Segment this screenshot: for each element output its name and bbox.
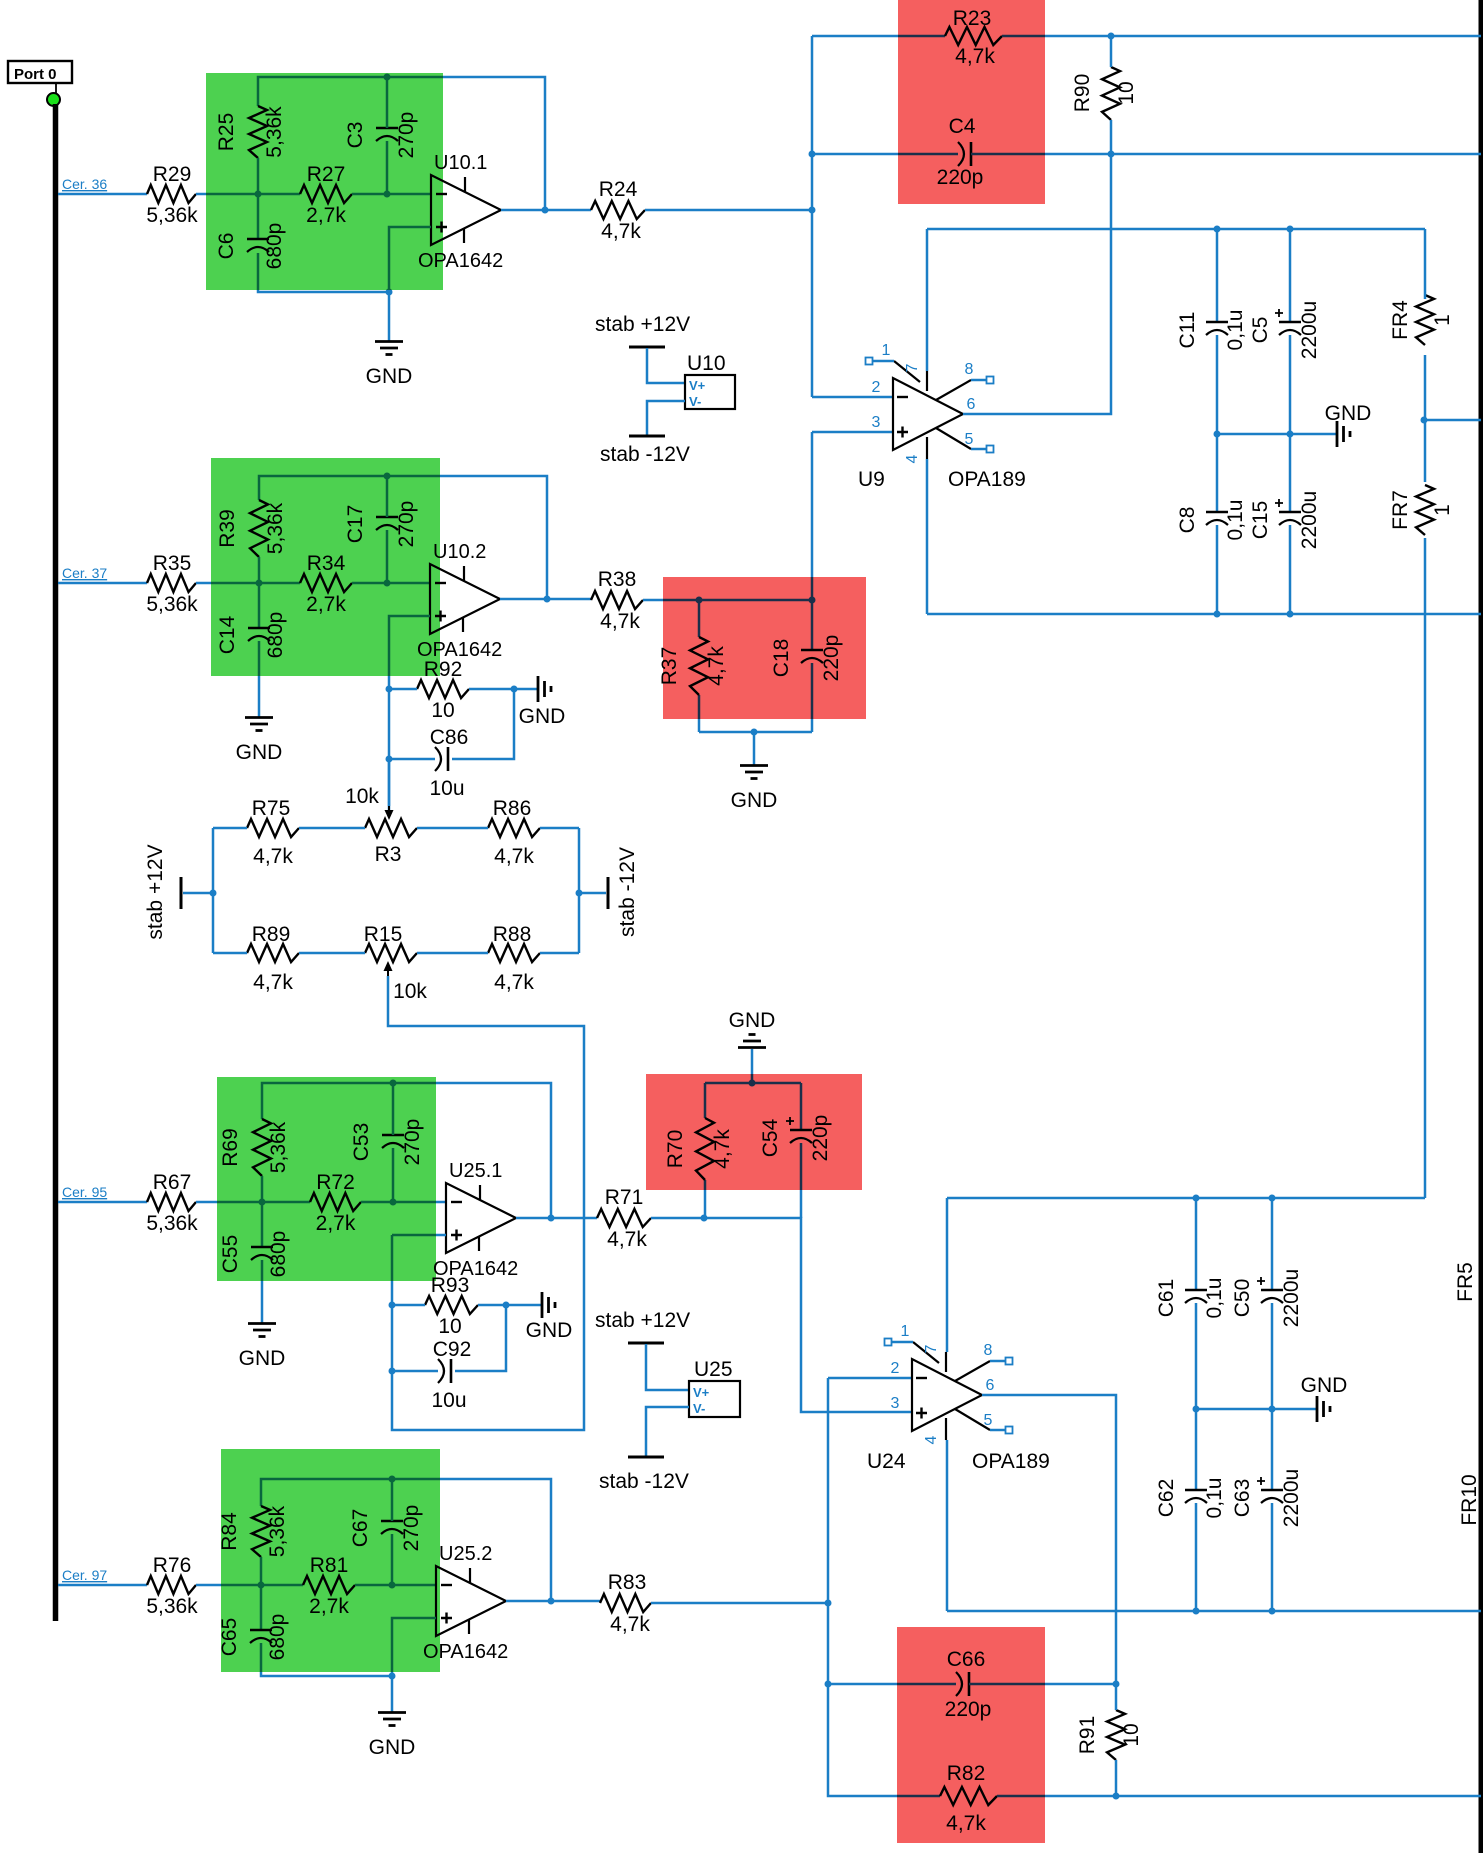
op-amp U25.1: [446, 1183, 516, 1253]
wire R70 leads: [704, 1083, 707, 1118]
capacitor C50: [1261, 1289, 1283, 1292]
node C67 bottom junction: [389, 1582, 396, 1589]
bus right edge vertical: [1479, 0, 1483, 1853]
svg-text:2: 2: [891, 1360, 900, 1377]
node right rail junction: [576, 890, 583, 897]
wire V- rail (bank2): [947, 1610, 1481, 1613]
svg-text:10: 10: [438, 1315, 461, 1338]
wire gnd row (bank2): [1196, 1408, 1317, 1411]
wire C17 bottom lead: [386, 530, 389, 583]
svg-text:R3: R3: [375, 843, 402, 866]
svg-text:C63: C63: [1231, 1479, 1254, 1518]
wire U9 pin7 supply: [926, 229, 929, 371]
svg-text:V+: V+: [689, 378, 706, 393]
op-amp U10.1: [431, 175, 501, 245]
wire U24 pin7 supply: [946, 1198, 949, 1352]
svg-text:2200u: 2200u: [1298, 301, 1321, 359]
wire U25.2 + input to GND: [392, 1618, 436, 1712]
wire U10.1 + input to GND: [389, 227, 431, 341]
wire C66 row right: [969, 1683, 1116, 1686]
wire V+ rail (bank1): [927, 228, 1425, 231]
wire bus to R76: [58, 1584, 147, 1587]
wire U24 pin5 stub: [990, 1429, 1006, 1432]
node R91 bottom junction: [1113, 1793, 1120, 1800]
resistor FR7: [1416, 485, 1434, 535]
wire R34 to op-amp: [352, 582, 430, 585]
node V- rail C62 junction: [1193, 1608, 1200, 1615]
svg-text:U25.2: U25.2: [439, 1543, 492, 1565]
svg-text:5,36k: 5,36k: [146, 593, 198, 616]
resistor R93: [425, 1296, 478, 1314]
node gnd row C5 junction: [1287, 431, 1294, 438]
wire C67 top lead: [391, 1479, 394, 1521]
svg-text:FR5: FR5: [1454, 1262, 1477, 1302]
op-amp U24: [912, 1359, 982, 1431]
node R90 top junction: [1108, 33, 1115, 40]
svg-text:GND: GND: [1325, 402, 1372, 425]
pin 1 square (U24): [885, 1339, 892, 1346]
node R3 wiper arrow: [385, 810, 394, 820]
wire R93 gnd stem: [506, 1304, 542, 1307]
node gnd row C61 junction: [1193, 1406, 1200, 1413]
svg-text:Cer. 37: Cer. 37: [62, 565, 107, 581]
potentiometer R3: [365, 819, 417, 837]
wire C50 column: [1271, 1198, 1274, 1290]
node A junction: [255, 191, 262, 198]
bus Port 0 vertical: [53, 104, 59, 1621]
wire U9 pin4 supply: [926, 459, 929, 614]
wire pot left rail: [212, 828, 215, 953]
node output junction: [548, 1215, 555, 1222]
svg-text:7: 7: [923, 1344, 940, 1353]
wire output: [506, 1600, 600, 1603]
capacitor C4: [958, 142, 964, 166]
box U25 power: [689, 1381, 740, 1417]
wire gnd row (bank1): [1217, 433, 1337, 436]
svg-text:1: 1: [1431, 314, 1454, 326]
node C50 top junction: [1269, 1195, 1276, 1202]
svg-text:5: 5: [965, 431, 974, 448]
svg-text:R67: R67: [153, 1171, 192, 1194]
wire U9 pin8 stub: [971, 379, 987, 382]
svg-text:4,7k: 4,7k: [253, 845, 293, 868]
node V- rail C8 junction: [1214, 611, 1221, 618]
svg-text:C15: C15: [1249, 501, 1272, 540]
wire C92 left lead: [392, 1370, 438, 1373]
ground GND (R92): [537, 676, 540, 702]
wire C53 top lead: [392, 1083, 395, 1135]
resistor R75: [247, 819, 299, 837]
node C5 top junction: [1287, 226, 1294, 233]
svg-text:V-: V-: [693, 1401, 705, 1416]
wire C14 bottom lead: [258, 641, 261, 717]
wire R67 to node A: [196, 1201, 310, 1204]
wire U24 output: [982, 1395, 1116, 1684]
node V- rail C15 junction: [1287, 611, 1294, 618]
svg-text:5: 5: [984, 1412, 993, 1429]
wire output: [516, 1217, 597, 1220]
svg-text:FR4: FR4: [1389, 300, 1412, 340]
node C3 top junction: [384, 74, 391, 81]
wire R15 wiper loop: [388, 976, 584, 1430]
wire U24 pin4 supply: [946, 1440, 949, 1611]
svg-text:R86: R86: [493, 797, 532, 820]
node C11 top junction: [1214, 226, 1221, 233]
wire R90 bottom lead: [1110, 120, 1113, 154]
capacitor C63: [1261, 1489, 1283, 1492]
svg-text:R35: R35: [153, 552, 192, 575]
ground GND (C55): [248, 1322, 276, 1325]
svg-text:2200u: 2200u: [1280, 1269, 1303, 1327]
node C18 top junction: [809, 597, 816, 604]
wire R70/C54 top: [705, 1082, 801, 1085]
node C17 bottom junction: [384, 580, 391, 587]
svg-text:U10: U10: [687, 352, 726, 375]
node V- rail C63 junction: [1269, 1608, 1276, 1615]
wire C11 column: [1216, 229, 1219, 322]
highlight red C66/R82: [897, 1627, 1045, 1843]
wire V- rail (bank1): [927, 613, 1481, 616]
svg-text:C86: C86: [430, 726, 469, 749]
svg-text:10: 10: [1120, 1723, 1143, 1746]
resistor R39: [250, 500, 268, 557]
node R93 right junction: [503, 1302, 510, 1309]
power stab -12V (pot): [607, 877, 610, 909]
capacitor C14: [248, 627, 270, 630]
wire R81 to op-amp: [355, 1584, 436, 1587]
svg-text:4,7k: 4,7k: [607, 1228, 647, 1251]
highlight green U10.2 filter: [211, 458, 440, 676]
wire stab+12V stem: [183, 892, 213, 895]
box U10 power: [685, 375, 735, 409]
wire C6 bottom to GND corner: [258, 253, 389, 292]
wire R37/C18 bottom: [699, 731, 812, 734]
wire C17 top lead: [386, 476, 389, 517]
svg-text:R91: R91: [1076, 1716, 1099, 1755]
svg-text:R88: R88: [493, 923, 532, 946]
svg-text:GND: GND: [369, 1736, 416, 1759]
highlight red R23/C4: [898, 0, 1045, 204]
wire gnd stem (R70/C54): [751, 1049, 754, 1083]
svg-text:C62: C62: [1155, 1479, 1178, 1518]
wire pot bottom row: [213, 952, 247, 955]
node left rail junction: [210, 890, 217, 897]
wire C5 column: [1289, 229, 1292, 322]
resistor R35: [147, 574, 196, 592]
resistor R67: [147, 1193, 196, 1211]
svg-text:C61: C61: [1155, 1279, 1178, 1318]
svg-text:OPA189: OPA189: [972, 1450, 1050, 1473]
node R15 wiper arrow: [384, 961, 393, 971]
resistor R88: [488, 944, 540, 962]
svg-text:U9: U9: [858, 468, 885, 491]
svg-text:0,1u: 0,1u: [1224, 310, 1247, 351]
wire R72 to op-amp: [361, 1201, 446, 1204]
wire R83 to U24 inv node: [651, 1602, 828, 1605]
node C53 bottom junction: [390, 1199, 397, 1206]
node A junction: [258, 1582, 265, 1589]
ground GND (R93): [541, 1292, 544, 1318]
resistor R84: [252, 1506, 270, 1557]
highlight green U25.1 filter: [217, 1077, 436, 1281]
wire R91 top lead: [1115, 1684, 1118, 1710]
node C53 top junction: [390, 1080, 397, 1087]
svg-text:U25: U25: [694, 1358, 733, 1381]
resistor R86: [488, 819, 540, 837]
highlight green U25.2 filter: [221, 1449, 440, 1672]
wire R76 to node A: [196, 1584, 303, 1587]
resistor R92: [417, 680, 469, 698]
svg-text:stab +12V: stab +12V: [595, 1309, 690, 1332]
wire R23 rail left: [812, 35, 945, 38]
wire R71 to U24 route: [651, 1218, 912, 1412]
wire port stem: [55, 83, 57, 93]
wire C55 bottom lead: [261, 1260, 264, 1323]
svg-text:4,7k: 4,7k: [601, 220, 641, 243]
wire R27 to op-amp: [352, 193, 431, 196]
svg-text:10u: 10u: [429, 777, 464, 800]
wire C3 bottom lead: [386, 141, 389, 194]
svg-text:C5: C5: [1249, 317, 1272, 344]
ground GND (C14): [245, 716, 273, 719]
svg-text:5,36k: 5,36k: [146, 1595, 198, 1618]
node + input gnd junction: [386, 289, 393, 296]
svg-text:R38: R38: [598, 568, 637, 591]
svg-text:stab -12V: stab -12V: [599, 1470, 689, 1493]
node gnd junction (R37/C18): [751, 729, 758, 736]
wire U10 V- to -12V: [647, 401, 685, 435]
wire pot top row: [213, 827, 247, 830]
svg-text:R71: R71: [605, 1186, 644, 1209]
node output junction: [548, 1598, 555, 1605]
wire R93 left lead: [392, 1304, 425, 1307]
node R92 left junction: [386, 686, 393, 693]
power stab +12V (pot): [180, 877, 183, 909]
wire U9 pin1 stub: [872, 360, 894, 363]
node C66 right junction: [1113, 1681, 1120, 1688]
svg-text:R15: R15: [364, 923, 403, 946]
wire C4 rail left: [812, 153, 958, 156]
svg-text:4,7k: 4,7k: [610, 1613, 650, 1636]
resistor R91: [1107, 1710, 1125, 1760]
op-amp U10.2: [430, 564, 500, 634]
ground GND (U25.2): [378, 1711, 406, 1714]
svg-text:R76: R76: [153, 1554, 192, 1577]
capacitor C17: [376, 516, 398, 519]
wire bus to R35: [58, 582, 147, 585]
wire U24 inv column: [828, 1378, 940, 1796]
wire gnd stem (R37/C18): [753, 732, 756, 765]
highlight red R70/C54: [646, 1074, 862, 1190]
ground GND (R37/C18): [740, 764, 768, 767]
node R37 top junction: [696, 597, 703, 604]
resistor FR4: [1416, 295, 1434, 345]
svg-text:2: 2: [872, 379, 881, 396]
svg-text:GND: GND: [366, 365, 413, 388]
svg-text:R83: R83: [608, 1571, 647, 1594]
capacitor C15: [1279, 511, 1301, 514]
svg-text:C92: C92: [433, 1338, 472, 1361]
svg-text:C50: C50: [1231, 1279, 1254, 1318]
wire R39 bottom lead: [258, 557, 261, 628]
resistor R90: [1102, 67, 1120, 120]
resistor R38: [591, 591, 643, 609]
svg-text:0,1u: 0,1u: [1203, 1478, 1226, 1519]
node R70 junction: [701, 1215, 708, 1222]
svg-text:Cer. 97: Cer. 97: [62, 1567, 107, 1583]
svg-text:R75: R75: [252, 797, 291, 820]
resistor R27: [300, 185, 352, 203]
capacitor C54: [790, 1129, 812, 1132]
wire U24 pin1 stub: [891, 1341, 913, 1344]
resistor R83: [600, 1594, 651, 1612]
wire output: [500, 598, 591, 601]
node R83 junction: [825, 1600, 832, 1607]
capacitor C5: [1279, 321, 1301, 324]
wire C53 bottom lead: [392, 1148, 395, 1202]
svg-text:GND: GND: [236, 741, 283, 764]
wire feedback top: [258, 77, 545, 210]
pin 5 square (U9): [987, 446, 994, 453]
wire R92 left lead: [389, 688, 417, 691]
wire R90 top lead: [1110, 36, 1113, 67]
svg-text:R90: R90: [1071, 74, 1094, 113]
svg-text:FR10: FR10: [1458, 1474, 1481, 1525]
svg-text:1: 1: [901, 1323, 910, 1340]
svg-text:8: 8: [965, 361, 974, 378]
resistor R25: [249, 106, 267, 158]
wire output: [501, 209, 591, 212]
wire C86 left lead: [389, 758, 435, 761]
wire R23 rail right: [1002, 35, 1481, 38]
wire R69 bottom lead: [261, 1176, 264, 1247]
svg-text:GND: GND: [526, 1319, 573, 1342]
wire R92 right to C86 right: [452, 689, 514, 759]
wire C18 leads: [811, 600, 814, 650]
svg-text:10: 10: [1115, 81, 1138, 104]
node + input gnd junction (U25.2): [389, 1673, 396, 1680]
wire U9 pin3: [812, 431, 893, 434]
resistor R70: [696, 1118, 714, 1180]
svg-text:R89: R89: [252, 923, 291, 946]
svg-text:V-: V-: [689, 394, 701, 409]
svg-text:4,7k: 4,7k: [494, 845, 534, 868]
svg-text:OPA189: OPA189: [948, 468, 1026, 491]
wire C67 bottom lead: [391, 1534, 394, 1585]
resistor R71: [597, 1209, 651, 1227]
svg-text:Cer. 95: Cer. 95: [62, 1184, 107, 1200]
svg-text:Cer. 36: Cer. 36: [62, 176, 107, 192]
port Port 0 box: [8, 61, 72, 83]
wire U9 pin3 column: [811, 432, 814, 600]
potentiometer R15: [365, 944, 417, 962]
svg-text:GND: GND: [519, 705, 566, 728]
wire C66 row left: [828, 1683, 956, 1686]
svg-text:4,7k: 4,7k: [494, 971, 534, 994]
svg-text:8: 8: [984, 1342, 993, 1359]
resistor R76: [147, 1576, 196, 1594]
wire +12V to U10 V+: [647, 348, 685, 383]
highlight green U10.1 filter: [206, 73, 443, 290]
wire U10.2 + input to trim: [389, 616, 430, 817]
node C17 top junction: [384, 473, 391, 480]
svg-text:10: 10: [431, 699, 454, 722]
svg-text:GND: GND: [1301, 1374, 1348, 1397]
svg-text:6: 6: [967, 396, 976, 413]
node R90 bottom junction: [1108, 151, 1115, 158]
svg-text:C8: C8: [1176, 507, 1199, 534]
pin 8 square (U9): [987, 377, 994, 384]
wire R24 to U9 inv node: [645, 209, 812, 212]
svg-text:0,1u: 0,1u: [1203, 1278, 1226, 1319]
wire U9 inv column: [811, 36, 814, 397]
wire U24 pin2: [828, 1377, 912, 1380]
svg-text:4: 4: [904, 454, 921, 463]
resistor R81: [303, 1576, 355, 1594]
svg-text:GND: GND: [731, 789, 778, 812]
capacitor C55: [251, 1246, 273, 1249]
svg-text:FR7: FR7: [1389, 490, 1412, 530]
node gnd junction (R70/C54): [749, 1080, 756, 1087]
wire U9 pin5 stub: [971, 448, 987, 451]
wire FR4 to FR7: [1424, 355, 1427, 482]
pin 1 square (U9): [866, 358, 873, 365]
wire C61 column: [1195, 1198, 1198, 1290]
node C4 left junction: [809, 151, 816, 158]
node gnd row C11 junction: [1214, 431, 1221, 438]
wire pot right rail: [578, 828, 581, 953]
svg-text:U24: U24: [867, 1450, 906, 1473]
wire bus to R67: [58, 1201, 147, 1204]
wire feedback top: [261, 1479, 551, 1601]
node C66 left junction: [825, 1681, 832, 1688]
wire U9 output: [963, 154, 1111, 414]
capacitor C92: [438, 1359, 444, 1383]
node R93 left junction: [389, 1302, 396, 1309]
svg-text:3: 3: [872, 414, 881, 431]
svg-text:0,1u: 0,1u: [1224, 500, 1247, 541]
power stab -12V (U25): [628, 1456, 664, 1459]
op-amp U9: [893, 378, 963, 450]
wire R29 to node A: [196, 193, 300, 196]
resistor R23: [945, 27, 1002, 45]
node output junction: [544, 596, 551, 603]
capacitor C62: [1185, 1489, 1207, 1492]
wire FR4 junction to bus: [1424, 419, 1481, 422]
resistor R89: [247, 944, 299, 962]
svg-text:2200u: 2200u: [1280, 1469, 1303, 1527]
svg-text:stab -12V: stab -12V: [616, 847, 639, 937]
node C3 bottom junction: [384, 191, 391, 198]
capacitor C67: [381, 1520, 403, 1523]
wire R91 bottom lead: [1115, 1760, 1118, 1796]
svg-text:1: 1: [882, 342, 891, 359]
svg-text:6: 6: [986, 1377, 995, 1394]
node output junction: [542, 207, 549, 214]
resistor R24: [591, 201, 645, 219]
svg-text:R24: R24: [599, 178, 638, 201]
node port terminal (green): [47, 93, 60, 106]
node C86 left junction: [386, 756, 393, 763]
svg-text:10u: 10u: [431, 1389, 466, 1412]
node gnd row C50 junction: [1269, 1406, 1276, 1413]
capacitor C18: [801, 649, 823, 652]
svg-text:R93: R93: [431, 1274, 470, 1297]
svg-text:3: 3: [891, 1395, 900, 1412]
pin 5 square (U24): [1006, 1427, 1013, 1434]
capacitor C65: [250, 1629, 272, 1632]
wire R92 gnd stem: [514, 688, 538, 691]
